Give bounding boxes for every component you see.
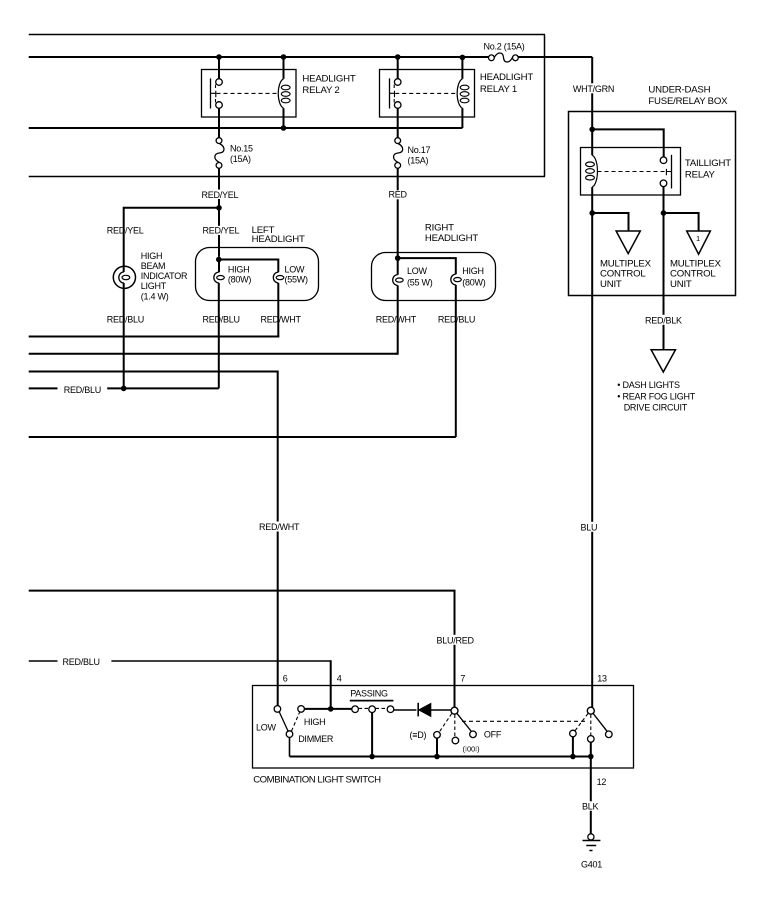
svg-text:RED/BLU: RED/BLU <box>63 657 100 667</box>
svg-text:BLK: BLK <box>582 801 599 811</box>
svg-text:BLU: BLU <box>581 523 598 533</box>
rotary 13 arm solid right <box>593 714 607 732</box>
connector triangle 1 (left multiplex) <box>592 213 651 290</box>
taillight relay coil <box>586 155 598 213</box>
note dash lights list <box>617 380 695 413</box>
svg-text:(⁝00⁝): (⁝00⁝) <box>463 745 481 754</box>
wire bus line D RED/BLU (high beams) <box>29 385 219 395</box>
svg-text:• REAR FOG LIGHT: • REAR FOG LIGHT <box>617 392 695 402</box>
svg-text:• DASH LIGHTS: • DASH LIGHTS <box>617 380 680 390</box>
svg-text:(1.4 W): (1.4 W) <box>141 292 169 302</box>
wire RED/WHT left low output <box>261 283 302 337</box>
svg-text:WHT/GRN: WHT/GRN <box>573 84 614 94</box>
passing switch <box>350 688 394 712</box>
switch contact LOW <box>256 706 281 733</box>
svg-text:DIMMER: DIMMER <box>298 734 334 744</box>
svg-text:No.2 (15A): No.2 (15A) <box>484 42 525 52</box>
svg-text:LIGHT: LIGHT <box>141 281 167 291</box>
wire bus line 3 <box>29 127 463 129</box>
relay K1 dashed link <box>395 92 458 94</box>
svg-text:G401: G401 <box>581 860 602 870</box>
taillight relay contact <box>660 155 671 213</box>
junction dot on bus line 3 <box>281 125 287 131</box>
wire bus line E <box>29 436 456 438</box>
taillight relay box <box>581 148 732 196</box>
switch bottom bus <box>290 756 591 758</box>
junction dot RED/YEL branch <box>216 205 222 211</box>
svg-text:4: 4 <box>337 674 342 684</box>
relay K2 coil <box>278 57 290 128</box>
svg-text:13: 13 <box>597 674 607 684</box>
svg-text:TAILLIGHT: TAILLIGHT <box>685 158 731 169</box>
svg-text:RED/BLU: RED/BLU <box>438 315 475 325</box>
rotary 13 arm dashed down <box>590 715 592 736</box>
svg-text:LOW: LOW <box>285 264 306 274</box>
svg-text:RED/BLU: RED/BLU <box>203 314 240 324</box>
svg-text:HIGH: HIGH <box>141 251 163 261</box>
svg-text:RED/YEL: RED/YEL <box>203 226 240 236</box>
svg-text:No.17: No.17 <box>408 145 431 155</box>
right headlight housing <box>372 222 496 300</box>
dimmer arm dashed to HIGH <box>292 713 300 732</box>
wire headlight contact to bus <box>434 738 440 759</box>
svg-text:RELAY 1: RELAY 1 <box>480 84 517 95</box>
wire bus line G RED/BLU to switch pin 4 <box>29 657 332 709</box>
contact parking position <box>452 737 480 753</box>
junction dots on bus line 2 <box>216 54 465 60</box>
relay K2 contact <box>211 57 223 138</box>
pin 13 <box>597 674 607 684</box>
svg-text:(≡D): (≡D) <box>410 730 427 740</box>
svg-text:BLU/RED: BLU/RED <box>437 636 475 646</box>
diode D <box>394 703 451 717</box>
contact 13 right <box>606 731 613 738</box>
fuse No.2 (15A) <box>484 42 525 62</box>
svg-text:RED/WHT: RED/WHT <box>259 522 300 532</box>
dimmer arm solid to LOW <box>279 712 288 731</box>
svg-text:RED/YEL: RED/YEL <box>202 190 239 200</box>
wire passing middle contact to bus <box>369 713 375 760</box>
svg-text:UNIT: UNIT <box>600 279 622 290</box>
bulb right LOW (55 W) <box>393 266 433 288</box>
svg-text:RED/WHT: RED/WHT <box>376 315 417 325</box>
bulb left LOW (55W) <box>273 264 308 284</box>
rotary arm dashed to headlight position <box>440 714 452 732</box>
rotary arm solid to OFF <box>457 714 471 732</box>
pin 7 <box>460 674 465 684</box>
wire bus line 4 <box>29 176 545 178</box>
svg-text:OFF: OFF <box>484 729 502 739</box>
svg-text:RED/WHT: RED/WHT <box>261 314 302 324</box>
svg-text:No.15: No.15 <box>230 144 253 154</box>
combination light switch box <box>253 686 634 786</box>
svg-text:LOW: LOW <box>256 723 277 733</box>
svg-text:RED/BLU: RED/BLU <box>64 385 101 395</box>
svg-text:INDICATOR: INDICATOR <box>141 271 188 281</box>
relay K1 contact <box>389 57 401 138</box>
svg-text:RELAY 2: RELAY 2 <box>302 85 339 96</box>
fuse No.15 (15A) <box>215 138 253 169</box>
wire bus line 1 (top feed) <box>29 34 545 36</box>
left headlight housing <box>196 225 319 301</box>
svg-text:(15A): (15A) <box>230 154 251 164</box>
relay K2 dashed link <box>217 92 280 94</box>
wire BLU down to switch pin 13 <box>579 213 603 707</box>
bulb left HIGH (80W) <box>214 264 252 284</box>
wire RED/BLU right high output <box>438 285 475 437</box>
svg-text:HIGH: HIGH <box>462 266 484 276</box>
contact headlight position <box>410 730 441 740</box>
wire RED/BLK <box>644 213 683 350</box>
svg-text:RED/YEL: RED/YEL <box>107 226 144 236</box>
relay K2 box (headlight relay 2) <box>202 70 356 118</box>
wire branch to high beam indicator <box>107 208 219 272</box>
wire WHT/GRN <box>572 57 664 157</box>
wire RED/WHT right low output <box>376 285 417 353</box>
rotary gang dashed link <box>462 720 586 722</box>
svg-text:(80W): (80W) <box>228 274 252 284</box>
wire bus line A <box>29 336 279 337</box>
relay K1 coil <box>457 57 469 128</box>
connector triangle 2 (right multiplex, 1) <box>664 213 722 290</box>
wire RED/BLU left high output <box>203 283 240 389</box>
fuse No.17 (15A) <box>394 138 431 169</box>
wire bus line C to switch pin 6 <box>29 372 300 706</box>
rotary 13 arm dashed left <box>575 714 588 731</box>
svg-text:7: 7 <box>460 674 465 684</box>
dimmer pivot <box>286 731 334 744</box>
wire bus line F to switch pin 7 <box>29 591 475 708</box>
rotary pivot pin 7 <box>451 707 458 714</box>
svg-text:(55 W): (55 W) <box>407 277 433 287</box>
svg-text:FUSE/RELAY BOX: FUSE/RELAY BOX <box>648 96 728 107</box>
switch contact HIGH <box>298 706 326 727</box>
svg-text:UNDER-DASH: UNDER-DASH <box>648 84 710 95</box>
svg-text:12: 12 <box>597 777 607 787</box>
svg-text:BEAM: BEAM <box>141 261 166 271</box>
svg-text:RED/BLK: RED/BLK <box>645 316 682 326</box>
svg-text:RED: RED <box>389 190 408 200</box>
svg-text:UNIT: UNIT <box>670 279 692 290</box>
svg-text:HEADLIGHT: HEADLIGHT <box>252 234 305 245</box>
pin 4 <box>337 674 342 684</box>
contact OFF <box>470 729 502 739</box>
junction dots under taillight relay <box>589 210 666 216</box>
rotary pivot pin 13 <box>587 707 594 714</box>
rotary arm dashed to parking position <box>454 715 456 737</box>
wire RED/YEL main vertical <box>200 168 240 256</box>
svg-text:DRIVE CIRCUIT: DRIVE CIRCUIT <box>624 403 688 413</box>
svg-text:6: 6 <box>283 674 288 684</box>
wire bus line B <box>29 353 397 355</box>
wire into left headlight <box>216 256 278 272</box>
wire contact 13 left to bus <box>570 737 576 760</box>
svg-text:COMBINATION LIGHT SWITCH: COMBINATION LIGHT SWITCH <box>253 774 381 785</box>
taillight relay dashed link <box>598 171 667 173</box>
wire RED into right headlight <box>387 168 456 274</box>
pin 6 <box>283 674 288 684</box>
under-dash fuse/relay box <box>569 84 736 295</box>
svg-text:RIGHT: RIGHT <box>425 222 454 233</box>
contact 13 middle <box>588 736 595 743</box>
svg-text:HEADLIGHT: HEADLIGHT <box>425 233 478 244</box>
bulb right HIGH (80W) <box>451 266 486 288</box>
wire HIGH to passing contacts <box>304 706 351 712</box>
svg-text:(55W): (55W) <box>285 274 309 284</box>
ground G401 <box>581 834 602 870</box>
lamp high beam indicator <box>113 251 188 301</box>
contact 13 left <box>570 730 577 737</box>
connector triangle RED/BLK <box>651 350 675 372</box>
svg-text:HEADLIGHT: HEADLIGHT <box>302 73 355 84</box>
svg-text:HEADLIGHT: HEADLIGHT <box>480 72 533 83</box>
svg-text:(80W): (80W) <box>462 277 486 287</box>
svg-text:HIGH: HIGH <box>304 717 326 727</box>
wire bus line 2 (No.2 fuse feed) <box>29 56 593 58</box>
svg-text:(15A): (15A) <box>408 155 429 165</box>
svg-text:1: 1 <box>696 234 700 243</box>
svg-text:RELAY: RELAY <box>685 170 716 181</box>
svg-text:RED/BLU: RED/BLU <box>107 314 144 324</box>
wire dimmer pivot to bus <box>289 737 291 756</box>
svg-text:PASSING: PASSING <box>350 688 388 698</box>
wire RED/BLU from indicator <box>107 283 144 388</box>
relay K1 box (headlight relay 1) <box>380 70 534 118</box>
wire vertical connecting line 1 to line 4 <box>544 35 546 177</box>
svg-text:HIGH: HIGH <box>228 264 250 274</box>
svg-text:LOW: LOW <box>407 266 428 276</box>
wire pin 12 to ground <box>581 742 607 834</box>
